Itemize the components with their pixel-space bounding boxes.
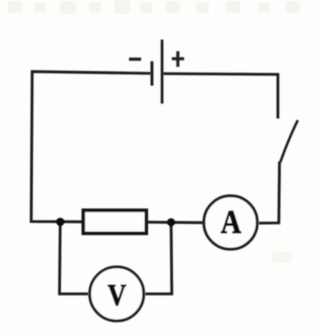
ammeter A bbox=[204, 196, 257, 249]
voltmeter V bbox=[90, 267, 144, 321]
svg-text:A: A bbox=[221, 204, 242, 241]
battery B1 negative plate (short) bbox=[151, 61, 154, 85]
wire: switch bottom down to ammeter right bbox=[259, 162, 280, 224]
wire: battery plus to top-right corner and down to switch bbox=[163, 74, 278, 119]
wire: right junction down and left to voltmeter bbox=[145, 222, 172, 294]
battery B1 positive plate (long) bbox=[161, 40, 164, 104]
node: right junction dot bbox=[167, 218, 175, 226]
label plus bbox=[172, 57, 184, 60]
wire: resistor right to ammeter left bbox=[146, 221, 203, 224]
switch S1 (open blade) bbox=[280, 120, 298, 162]
svg-text:V: V bbox=[108, 277, 127, 312]
resistor R bbox=[83, 210, 146, 233]
node: left junction dot bbox=[56, 218, 64, 226]
wire: left junction down and right to voltmeter bbox=[60, 222, 89, 294]
label minus bbox=[129, 58, 141, 61]
wire: top-left rail, left vertical, bottom-left rail to resistor bbox=[31, 72, 151, 222]
